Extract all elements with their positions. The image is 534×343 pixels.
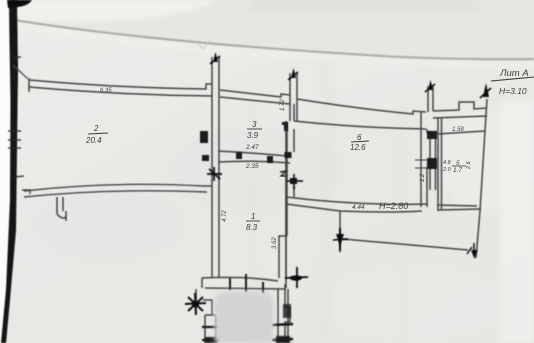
svg-text:20.4: 20.4 [85,136,102,145]
svg-text:6.35: 6.35 [100,88,113,94]
black door jambs room3 [200,122,288,163]
cross at (297,278) [285,267,308,288]
subtle darker smudge lower-left [20,190,220,343]
svg-text:1.7: 1.7 [453,167,462,174]
room5 label 5/1.7 [442,160,472,174]
top wall segment C lower face / room6 top wall [294,121,426,129]
window ticks room1 bottom wall [230,274,263,293]
svg-text:8.3: 8.3 [246,223,258,232]
room3 bottom wall [218,151,290,163]
grey tint above curl line (page fold shadow) [0,0,534,60]
room2 bottom wall lower face [24,191,207,197]
light band below fold line [14,21,534,70]
top wall segment A lower face [29,87,212,96]
room1 bottom-left corner drop to star [196,278,202,300]
scan mottling [30,60,520,340]
right outer wall [476,99,487,258]
svg-text:1.72: 1.72 [280,99,286,111]
svg-text:1.2: 1.2 [420,173,426,182]
svg-text:3: 3 [252,120,257,129]
room2 label 2/20.4 [85,124,108,145]
faint pencil check mark [197,39,211,49]
ladder ticks right shaft [272,324,293,340]
stub wall S1 (x=212-219) with room1/3 left wall full height [212,57,219,278]
cross marker at (214,174) [207,167,222,181]
stub wall S3 (x=428-433) [428,86,433,112]
top wall segment D lower face [433,116,487,118]
white wash top-left above fold [14,0,220,22]
top wall segment B upper face [220,90,290,97]
arrow on outer wall top [480,83,491,98]
svg-text:2.35: 2.35 [245,163,259,170]
room1 right wall lower [279,248,286,288]
room1 right wall upper (x=287-294) [287,104,294,236]
svg-text:Н=2.80: Н=2.80 [379,201,408,211]
arrow S3 [425,80,435,92]
room2 bottom wall upper face [22,184,212,194]
svg-text:2.47: 2.47 [245,144,259,151]
left scan edge black band [1,0,18,343]
svg-text:Лит А: Лит А [499,68,529,79]
long dimension line to right [343,239,468,250]
black door jambs room6 left wall [285,152,292,158]
svg-text:1: 1 [251,212,255,221]
dimension ticks left of room5 partition [415,160,427,168]
hook below room2 bottom wall [57,197,66,221]
top wall left end step [28,78,30,92]
stub wall S2 (x=290-297) [290,73,297,122]
drop from room6 bottom to dim line [339,211,341,250]
arrow at right end of dim line (470,251) [467,243,474,254]
top wall segment C upper face [297,99,426,114]
vertical scan streaks [250,60,406,343]
dark jog blob right shaft [283,304,291,318]
room3 label 3/3.9 [247,120,262,140]
svg-text:4.44: 4.44 [352,204,365,211]
step below star [203,300,216,343]
svg-text:3.62: 3.62 [272,237,278,249]
top wall segment D upper face [433,102,487,111]
down arrow-cross at (340,240) [333,228,348,252]
room6 right wall [421,112,427,207]
black door jambs room6/5 partition [427,131,437,169]
room5 bottom line [437,205,481,210]
top-left black blob [7,0,32,8]
svg-text:2.6: 2.6 [466,160,472,170]
page curl line (faint grey) [14,20,534,59]
top edge smudge [250,0,480,12]
top wall segment A upper face [29,80,212,89]
svg-text:4.8: 4.8 [443,160,452,166]
black marks at shaft bottoms [205,337,217,343]
cross marker at room6 door [287,174,303,189]
tick across room6 left wall [283,159,296,161]
arrow S2 [288,68,298,80]
inner partition room6/5 [430,131,436,190]
star at (195,304) [185,293,206,315]
room1 right wall jog [279,156,287,248]
svg-text:4.72: 4.72 [222,210,228,222]
room6 label 6/12.6 [350,133,369,152]
right shaft below room1 [278,289,288,343]
grey eraser blob bottom middle [214,291,274,343]
svg-text:3.9: 3.9 [247,131,259,140]
scribble above door cross [280,171,287,176]
arrow S1 [210,52,220,64]
svg-text:2.0: 2.0 [442,167,452,173]
svg-text:12.6: 12.6 [350,143,366,152]
diagonal connector from band to wall start [13,65,28,79]
room1 label 1/8.3 [246,212,260,232]
left scan edge white sliver [0,0,11,343]
svg-text:Н=3.10: Н=3.10 [499,86,527,96]
text: Лит А [491,68,534,96]
room5 top line [437,131,485,134]
ladder ticks left shaft [202,327,220,340]
top wall segment B lower face [220,97,290,104]
svg-text:1.58: 1.58 [452,127,464,133]
room5 left wall [438,118,442,211]
subtle lighter right edge [500,100,534,343]
room6 bottom wall [286,197,428,212]
room6 left wall [286,121,294,204]
passage right wall single down from room6 corner [285,204,290,343]
svg-text:2: 2 [93,124,99,133]
svg-text:6: 6 [357,133,362,142]
room1 bottom wall [202,277,286,289]
window ticks on left band [8,57,24,177]
